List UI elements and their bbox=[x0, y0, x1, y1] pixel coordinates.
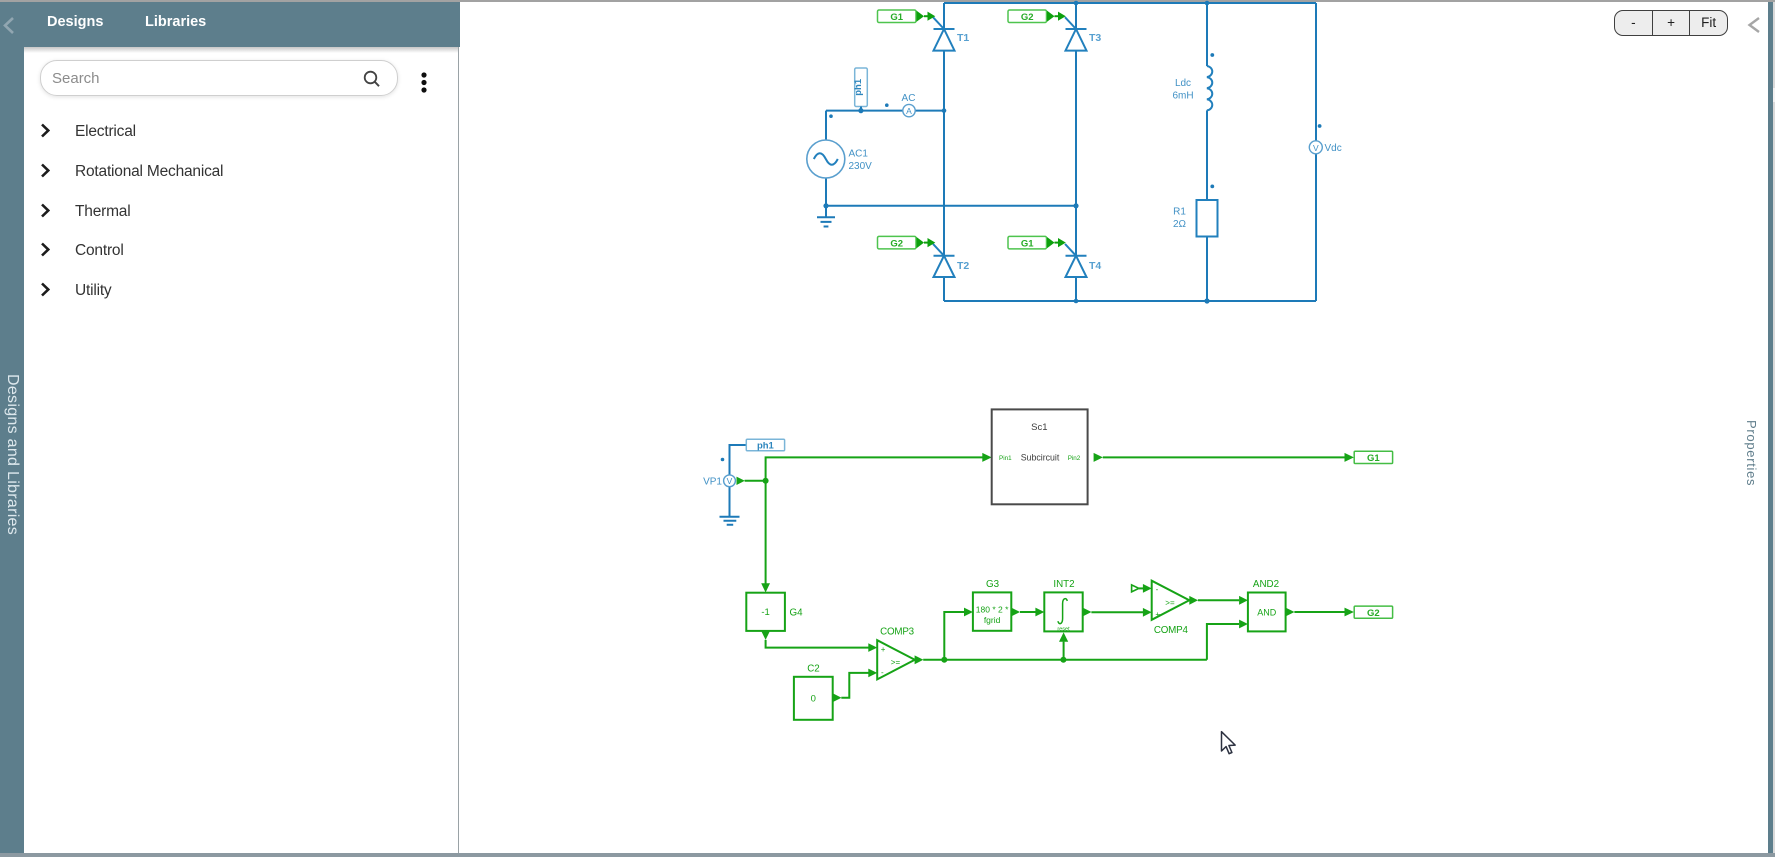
svg-text:-1: -1 bbox=[761, 607, 769, 618]
gate tag G1 (T4) bbox=[1008, 236, 1066, 249]
wire junction down to G4 bbox=[765, 481, 767, 584]
svg-text:0: 0 bbox=[811, 694, 816, 705]
thyristor T4 bbox=[1065, 244, 1087, 277]
svg-text:ph1: ph1 bbox=[853, 78, 864, 96]
svg-text:Ldc: Ldc bbox=[1175, 78, 1191, 89]
thyristor T2 bbox=[933, 244, 955, 277]
wire leg B (T3/T4) bbox=[1075, 3, 1077, 301]
svg-text:G3: G3 bbox=[986, 579, 1000, 590]
dangling input marker bbox=[1132, 585, 1139, 592]
ground (AC1) bbox=[817, 217, 835, 226]
svg-text:Pin1: Pin1 bbox=[999, 455, 1012, 462]
svg-text:INT2: INT2 bbox=[1053, 579, 1074, 590]
svg-text:G4: G4 bbox=[790, 608, 804, 619]
voltmeter Vdc bbox=[1309, 141, 1341, 154]
gate tag G1 (T1) bbox=[878, 10, 936, 23]
ground (VP1) bbox=[720, 517, 740, 525]
svg-text:V: V bbox=[727, 476, 733, 486]
svg-text:>=: >= bbox=[891, 658, 901, 667]
svg-text:fgrid: fgrid bbox=[984, 615, 1001, 625]
wire VP1 out to junction bbox=[745, 480, 766, 482]
gain G4 bbox=[746, 593, 803, 631]
gain G3 bbox=[973, 579, 1011, 631]
wire right branch (Vdc) bbox=[1315, 3, 1317, 301]
svg-text:COMP4: COMP4 bbox=[1154, 625, 1189, 636]
svg-text:-: - bbox=[1156, 585, 1159, 594]
wire bottom bus bbox=[944, 300, 1316, 302]
svg-text:C2: C2 bbox=[807, 664, 820, 675]
svg-text:6mH: 6mH bbox=[1172, 91, 1193, 102]
wire AC return bbox=[826, 205, 1076, 207]
right edge bbox=[1768, 2, 1773, 853]
arrows (green ports) bbox=[737, 453, 1354, 702]
wire across to 2nd junction and AND2 input bbox=[944, 624, 1239, 660]
gate tag G2 (T3) bbox=[1008, 10, 1066, 23]
svg-text:G1: G1 bbox=[1021, 238, 1034, 249]
svg-text:AND2: AND2 bbox=[1253, 579, 1279, 590]
svg-text:T2: T2 bbox=[957, 260, 969, 272]
top gray window border bbox=[0, 0, 1775, 2]
inductor Ldc bbox=[1172, 66, 1212, 110]
wire leg A (T1/T2) bbox=[943, 3, 945, 301]
wire G4 to COMP3 plus bbox=[766, 640, 869, 648]
tag ph1 (control) bbox=[746, 439, 784, 451]
left library panel bbox=[24, 47, 459, 853]
svg-text:AC1: AC1 bbox=[849, 149, 869, 160]
wire AND2 to G2 tag bbox=[1294, 611, 1344, 613]
svg-text:T3: T3 bbox=[1089, 32, 1101, 44]
tag ph1 (top) bbox=[853, 68, 867, 111]
wire G3 to INT2 bbox=[1020, 611, 1036, 613]
wire AC1 leads bbox=[825, 111, 827, 217]
junction dots (green) bbox=[763, 478, 1067, 663]
wire Ldc/R1 leg bbox=[1206, 3, 1208, 301]
svg-text:AC: AC bbox=[902, 93, 916, 104]
svg-text:G2: G2 bbox=[890, 238, 903, 249]
wire COMP4 dangling stub bbox=[1139, 587, 1143, 589]
thyristor T3 bbox=[1065, 17, 1087, 50]
svg-text:reset: reset bbox=[1057, 626, 1070, 632]
tag G2 (control out) bbox=[1354, 606, 1392, 619]
svg-text:G1: G1 bbox=[1367, 453, 1380, 464]
left collapsed strip bbox=[0, 2, 24, 853]
svg-text:AND: AND bbox=[1257, 608, 1277, 618]
svg-text:VP1: VP1 bbox=[703, 476, 722, 487]
svg-text:230V: 230V bbox=[849, 161, 873, 172]
voltmeter VP1 bbox=[703, 445, 746, 517]
logic AND2 bbox=[1248, 579, 1286, 631]
wire AC phase bbox=[826, 110, 944, 112]
source AC1 bbox=[807, 140, 872, 178]
svg-text:+: + bbox=[1155, 610, 1160, 619]
svg-text:T1: T1 bbox=[957, 32, 969, 44]
wire junction up to Sc1 bbox=[766, 457, 983, 480]
svg-text:>=: >= bbox=[1165, 598, 1175, 607]
svg-text:G2: G2 bbox=[1021, 12, 1034, 23]
integrator INT2 bbox=[1044, 579, 1082, 632]
svg-text:ph1: ph1 bbox=[757, 441, 775, 452]
svg-text:Sc1: Sc1 bbox=[1031, 422, 1047, 433]
wire Sc1 to G1 tag bbox=[1103, 456, 1345, 458]
subcircuit Sc1 bbox=[992, 409, 1088, 504]
svg-text:V: V bbox=[1313, 143, 1319, 153]
tag G1 (control out) bbox=[1354, 451, 1392, 464]
wire INT2 to COMP4 bbox=[1091, 611, 1143, 613]
wire up to G3 bbox=[944, 612, 964, 660]
gate tag G2 (T2) bbox=[878, 236, 936, 249]
mouse cursor bbox=[1222, 732, 1236, 754]
zoom controls bbox=[1614, 10, 1728, 36]
svg-text:COMP3: COMP3 bbox=[880, 627, 915, 638]
svg-text:Pin2: Pin2 bbox=[1068, 455, 1081, 462]
header bar with tabs bbox=[0, 2, 460, 47]
wire COMP4 to AND2 bbox=[1198, 599, 1239, 601]
comparator COMP3 bbox=[877, 627, 915, 680]
ammeter AC bbox=[902, 93, 916, 117]
wire top bus bbox=[944, 2, 1316, 4]
wire INT2 reset bbox=[1063, 642, 1065, 660]
resistor R1 bbox=[1173, 200, 1218, 237]
svg-text:Vdc: Vdc bbox=[1325, 143, 1342, 154]
svg-text:T4: T4 bbox=[1089, 260, 1101, 272]
svg-text:180 * 2 *: 180 * 2 * bbox=[976, 604, 1009, 614]
wire C2 to COMP3 minus bbox=[841, 673, 868, 698]
junction dots bbox=[721, 1, 1322, 462]
svg-text:G1: G1 bbox=[890, 12, 903, 23]
svg-text:2Ω: 2Ω bbox=[1173, 219, 1187, 230]
comparator COMP4 bbox=[1152, 581, 1190, 636]
svg-text:A: A bbox=[906, 106, 912, 116]
svg-text:+: + bbox=[881, 645, 886, 654]
svg-text:Subcircuit: Subcircuit bbox=[1021, 453, 1060, 463]
wire COMP3 out bbox=[923, 659, 944, 661]
svg-text:R1: R1 bbox=[1173, 207, 1186, 218]
svg-text:-: - bbox=[881, 668, 884, 677]
thyristor T1 bbox=[933, 17, 955, 50]
constant C2 bbox=[794, 664, 833, 720]
svg-text:G2: G2 bbox=[1367, 608, 1380, 619]
